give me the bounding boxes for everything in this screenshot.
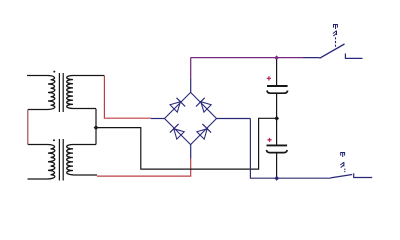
diode D4 (bottom to right) triangle (197, 129, 207, 139)
capacitor C1 top lead (276, 60, 278, 86)
capacitor C1 plus sign (267, 76, 271, 80)
bridge top pin (190, 79, 192, 92)
transformer T1 primary winding (48, 76, 55, 110)
node capacitor midpoint junction (274, 116, 279, 121)
wire red T2 secondary to bridge bottom (97, 159, 191, 177)
wire red T1 secondary to bridge left (104, 76, 151, 119)
transformer T2 polarity dot (53, 139, 55, 141)
capacitor C1 top plate (267, 85, 288, 87)
T2 top-left lead (28, 144, 48, 146)
node center tap junction (94, 125, 99, 130)
wire purple positive rail vertical (191, 58, 303, 79)
T1 bottom-left lead (28, 109, 48, 111)
diode D1 cathode bar (177, 98, 186, 107)
transformer T2 primary winding (48, 145, 55, 180)
T2 bottom-right lead (73, 174, 97, 176)
diode D2 cathode bar (196, 98, 205, 107)
diode D1 (left to top) triangle (170, 102, 180, 112)
wire red primary series link (27, 110, 29, 145)
T1 bottom-right lead (73, 108, 96, 110)
wire center tap to capacitor midpoint (96, 118, 277, 169)
capacitor C2 plus sign (267, 138, 271, 142)
capacitor C2 top plate (267, 144, 288, 146)
capacitor C2 top lead (276, 118, 278, 144)
bridge bottom pin (190, 145, 192, 159)
switch S1 label char2 (333, 31, 337, 37)
diode D4 cathode bar (202, 124, 211, 133)
wire navy negative rail (250, 119, 330, 179)
switch S2 label char2 (340, 162, 344, 168)
node negative rail junction (274, 176, 279, 181)
transformer T1 core (59, 73, 63, 112)
switch S1 linkage dashes (335, 37, 337, 47)
diode D3 cathode bar (170, 124, 179, 133)
capacitor C2 bottom lead (276, 153, 278, 178)
T2 bottom-left lead (28, 178, 49, 180)
capacitor C1 bottom lead (276, 94, 278, 119)
wire navy to top switch (303, 57, 320, 59)
switch S1 contact and output lead (345, 54, 362, 59)
switch S1 lever (320, 44, 345, 58)
node positive rail junction (274, 55, 279, 60)
T1 top-right lead (73, 75, 104, 77)
switch S2 linkage dashes (344, 169, 346, 173)
transformer T2 core (59, 139, 63, 181)
capacitor C1 curved plate (267, 91, 288, 94)
bridge rectifier diamond sides (165, 92, 217, 144)
T1 top-left lead (27, 75, 48, 77)
bridge left pin (151, 118, 165, 120)
transformer T1 secondary winding (67, 76, 73, 109)
capacitor C2 curved plate (267, 150, 288, 153)
transformer T1 polarity dot (53, 71, 55, 73)
switch S2 lever (331, 175, 353, 178)
switch S1 label char1 (333, 25, 338, 30)
diode D3 (bottom to left) triangle (174, 129, 184, 139)
transformer T2 secondary winding (67, 145, 73, 175)
switch S2 label char1 (340, 153, 345, 158)
switch S2 contact and output lead (354, 173, 373, 177)
bridge right pin (217, 118, 251, 120)
T2 top-right lead (73, 144, 96, 146)
diode D2 (right to top) triangle (201, 102, 211, 112)
wire center tap vertical (95, 109, 97, 145)
